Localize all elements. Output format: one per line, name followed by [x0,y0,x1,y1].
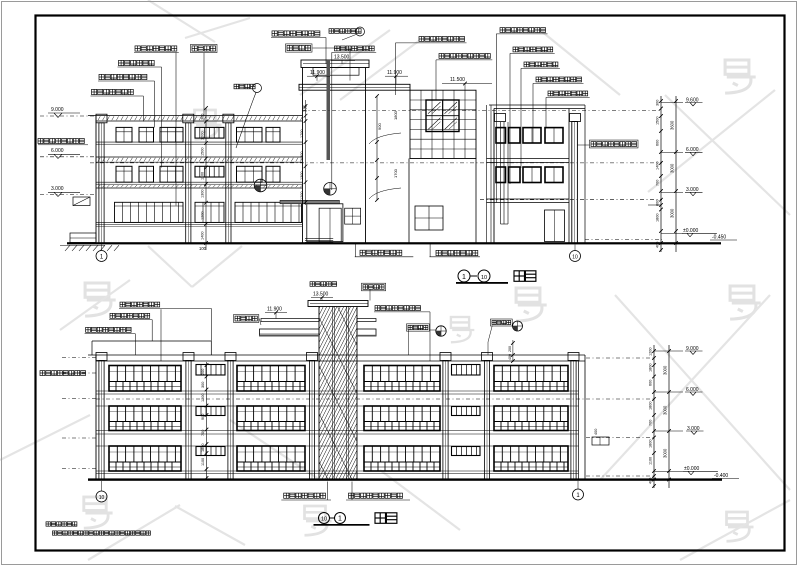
svg-text:1100: 1100 [649,457,653,465]
svg-text:1300: 1300 [300,172,304,180]
svg-text:700: 700 [656,180,660,186]
svg-text:1300: 1300 [201,190,205,198]
svg-text:10: 10 [481,275,487,281]
svg-text:-0.450: -0.450 [712,235,726,241]
svg-text:-0.400: -0.400 [714,473,728,479]
svg-text:1: 1 [462,274,466,281]
svg-text:1200: 1200 [201,132,205,140]
svg-text:1800: 1800 [201,444,205,452]
svg-text:1200: 1200 [649,348,653,356]
svg-text:700: 700 [649,420,653,426]
svg-text:1200: 1200 [201,394,205,402]
svg-text:3.000: 3.000 [51,186,64,192]
svg-text:6.000: 6.000 [51,148,64,154]
svg-text:300: 300 [656,100,660,106]
svg-text:11.900: 11.900 [387,70,402,76]
svg-text:3000: 3000 [663,448,668,458]
svg-text:10: 10 [321,516,327,522]
svg-text:1200: 1200 [300,192,304,200]
svg-text:3000: 3000 [670,163,675,173]
svg-text:3000: 3000 [663,365,668,375]
svg-text:1800: 1800 [649,402,653,410]
svg-text:200: 200 [508,346,512,352]
svg-text:1700: 1700 [393,168,398,178]
svg-text:1: 1 [338,516,342,523]
svg-text:3000: 3000 [663,405,668,415]
svg-text:3000: 3000 [670,208,675,218]
svg-text:400: 400 [656,242,660,248]
svg-text:600: 600 [649,380,653,386]
svg-text:13.500: 13.500 [313,292,329,298]
svg-text:400: 400 [594,429,598,435]
svg-text:1500: 1500 [656,117,660,125]
svg-text:335: 335 [303,104,308,112]
svg-text:3600: 3600 [670,120,675,130]
svg-text:10: 10 [99,495,105,501]
svg-text:900: 900 [201,414,205,420]
svg-text:1400: 1400 [201,232,205,240]
svg-text:11.500: 11.500 [450,77,465,83]
svg-text:1300: 1300 [300,152,304,160]
svg-text:100: 100 [199,246,207,251]
svg-text:200: 200 [201,369,205,375]
svg-text:1200: 1200 [201,212,205,220]
svg-text:1400: 1400 [656,162,660,170]
svg-text:1100: 1100 [201,172,205,180]
svg-text:1700: 1700 [300,130,304,138]
svg-text:600: 600 [656,140,660,146]
svg-text:1100: 1100 [201,458,205,466]
svg-text:13.500: 13.500 [334,55,350,61]
svg-text:300: 300 [201,382,205,388]
svg-text:10: 10 [572,254,578,260]
svg-text:700: 700 [201,430,205,436]
svg-text:1800: 1800 [393,110,398,120]
svg-text:900: 900 [377,123,382,130]
svg-text:400: 400 [508,354,512,360]
svg-text:1800: 1800 [649,364,653,372]
svg-text:1800: 1800 [649,440,653,448]
svg-text:9.000: 9.000 [51,107,64,113]
svg-text:1500: 1500 [201,148,205,156]
svg-text:400: 400 [649,478,653,484]
svg-text:11.900: 11.900 [267,307,282,313]
svg-text:1800: 1800 [656,214,660,222]
